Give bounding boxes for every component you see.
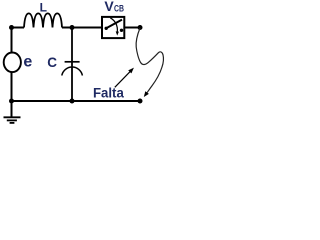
node bottom-cap — [70, 99, 75, 104]
fault arc squiggle — [136, 28, 163, 93]
svg-text:V: V — [104, 0, 114, 14]
wire top-left segment — [12, 27, 25, 29]
capacitor branch wire — [71, 28, 73, 102]
capacitor C flat plate — [65, 61, 80, 63]
source e circle — [4, 53, 21, 73]
wire bottom — [12, 100, 141, 102]
svg-text:L: L — [40, 0, 47, 14]
fault arrowhead — [144, 91, 149, 97]
breaker opening arrow — [110, 18, 117, 32]
node top-right — [138, 25, 143, 30]
svg-text:e: e — [23, 53, 32, 70]
wire left vertical upper — [11, 28, 13, 54]
svg-text:C: C — [47, 55, 57, 70]
wire left vertical lower — [11, 73, 13, 102]
node bottom-right — [138, 99, 143, 104]
breaker blade — [106, 20, 122, 29]
Falta pointer arrow — [115, 71, 131, 87]
breaker box U1 — [102, 17, 124, 38]
capacitor C curved plate — [62, 67, 83, 75]
breaker left contact — [105, 27, 108, 30]
svg-text:Falta: Falta — [93, 85, 124, 101]
node top-cap — [70, 25, 75, 30]
node bottom-left — [9, 99, 14, 104]
inductor L — [24, 13, 62, 27]
wire box to right node — [125, 27, 140, 29]
svg-text:CB: CB — [114, 3, 124, 13]
breaker right contact — [120, 29, 123, 32]
wire inductor to breaker box — [62, 27, 102, 29]
ground — [4, 101, 21, 123]
node top-left — [9, 25, 14, 30]
